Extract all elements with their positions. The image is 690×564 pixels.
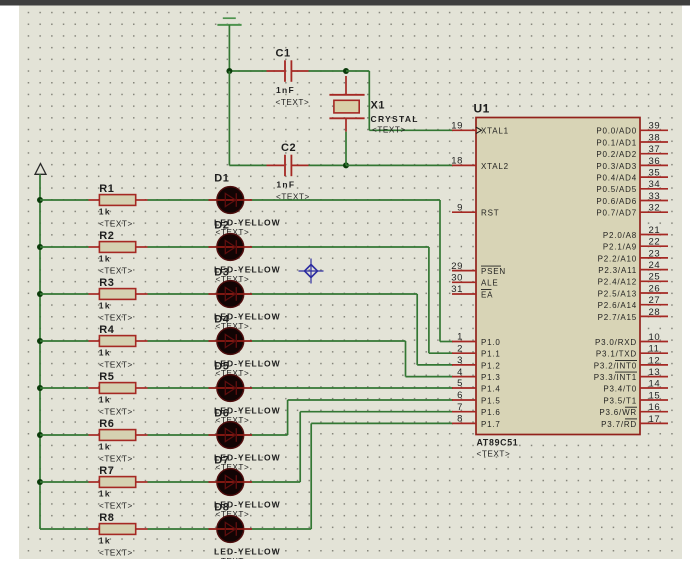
wire D6 to P1.5 xyxy=(252,400,453,435)
node bus junction row 7 xyxy=(37,479,43,485)
wire left vertical to C2 xyxy=(228,71,230,165)
svg-text:P3.5/T1: P3.5/T1 xyxy=(603,396,637,405)
svg-text:P1.1: P1.1 xyxy=(481,350,501,359)
svg-text:C2: C2 xyxy=(281,142,296,154)
LED D6 xyxy=(209,407,281,472)
U1 pin 28 P2.7 xyxy=(598,307,668,322)
svg-text:6: 6 xyxy=(457,390,463,401)
svg-text:34: 34 xyxy=(649,179,661,190)
U1 pin 13 P3.3 xyxy=(594,367,668,382)
node bus junction row 4 xyxy=(37,338,43,344)
wire C2 left xyxy=(229,164,266,166)
svg-text:12: 12 xyxy=(649,355,661,366)
svg-text:39: 39 xyxy=(649,121,661,132)
U1 pin 9 RST xyxy=(452,202,499,217)
svg-text:<TEXT>: <TEXT> xyxy=(99,361,133,370)
node bus junction row 2 xyxy=(37,244,43,250)
op-amp U1 body (AT89C51 MCU) xyxy=(474,102,641,459)
svg-text:1k: 1k xyxy=(99,254,111,264)
resistor R6 xyxy=(89,418,148,464)
LED D2 xyxy=(209,219,281,284)
svg-text:RST: RST xyxy=(481,209,499,218)
wire C2 right xyxy=(309,164,347,166)
U1 pin 23 P2.2 xyxy=(598,248,668,263)
svg-text:R4: R4 xyxy=(99,324,114,336)
svg-text:R6: R6 xyxy=(99,418,114,430)
svg-text:1k: 1k xyxy=(99,489,111,499)
svg-text:D8: D8 xyxy=(214,501,229,513)
svg-text:<TEXT>: <TEXT> xyxy=(276,98,310,107)
svg-text:P1.6: P1.6 xyxy=(481,408,501,417)
svg-text:32: 32 xyxy=(649,203,661,214)
svg-text:<TEXT>: <TEXT> xyxy=(99,408,133,417)
svg-text:P2.3/A11: P2.3/A11 xyxy=(598,266,637,275)
U1 pin 15 P3.5 xyxy=(603,390,668,405)
svg-text:P0.6/AD6: P0.6/AD6 xyxy=(596,197,637,206)
svg-text:1k: 1k xyxy=(99,301,111,311)
svg-text:2: 2 xyxy=(457,343,463,354)
svg-text:R3: R3 xyxy=(99,277,114,289)
U1 pin 27 P2.6 xyxy=(598,295,668,310)
svg-text:P0.7/AD7: P0.7/AD7 xyxy=(596,209,637,218)
svg-text:P2.5/A13: P2.5/A13 xyxy=(598,289,637,298)
wire bus to R6 xyxy=(40,434,89,436)
wire D7 to P1.6 xyxy=(252,412,453,482)
wire R1 to D1 xyxy=(148,199,209,201)
node origin marker xyxy=(299,259,324,284)
svg-text:27: 27 xyxy=(649,295,661,306)
U1 pin 8 P1.7 xyxy=(452,414,501,429)
svg-text:3: 3 xyxy=(457,355,463,366)
svg-text:P3.0/RXD: P3.0/RXD xyxy=(595,338,637,347)
svg-text:P3.6/WR: P3.6/WR xyxy=(599,408,637,417)
svg-text:P2.4/A12: P2.4/A12 xyxy=(598,278,637,287)
U1 pin 5 P1.4 xyxy=(452,378,501,393)
wire R5 to D5 xyxy=(148,387,209,389)
wire bus to R3 xyxy=(40,293,89,295)
capacitor C2 xyxy=(267,142,310,201)
svg-text:<TEXT>: <TEXT> xyxy=(99,455,133,464)
svg-text:P3.7/RD: P3.7/RD xyxy=(601,420,637,429)
svg-text:P1.5: P1.5 xyxy=(481,396,501,405)
wire C2 to XTAL2 xyxy=(346,164,453,166)
wire R3 to D3 xyxy=(148,293,209,295)
svg-text:33: 33 xyxy=(649,191,661,202)
svg-text:CRYSTAL: CRYSTAL xyxy=(371,114,419,124)
ground xyxy=(217,18,241,25)
svg-text:LED-YELLOW: LED-YELLOW xyxy=(214,546,281,556)
svg-text:D3: D3 xyxy=(214,266,229,278)
wire D1 to P1.0 xyxy=(252,200,453,342)
U1 pin 35 P0.4 xyxy=(596,168,668,183)
svg-text:<TEXT>: <TEXT> xyxy=(372,126,406,135)
svg-text:P0.3/AD3: P0.3/AD3 xyxy=(596,162,637,171)
U1 pin 36 P0.3 xyxy=(596,156,668,171)
svg-text:P3.1/TXD: P3.1/TXD xyxy=(596,350,637,359)
U1 pin 12 P3.2 xyxy=(594,355,668,370)
node bus junction row 1 xyxy=(37,197,43,203)
node bus junction row 5 xyxy=(37,385,43,391)
svg-text:8: 8 xyxy=(457,414,463,425)
U1 pin 14 P3.4 xyxy=(603,378,668,393)
U1 pin 33 P0.6 xyxy=(596,191,668,206)
svg-text:1: 1 xyxy=(457,332,463,343)
svg-text:R7: R7 xyxy=(99,465,114,477)
wire D2 to P1.1 xyxy=(252,247,453,353)
svg-text:24: 24 xyxy=(649,260,661,271)
svg-text:P3.3/INT1: P3.3/INT1 xyxy=(594,373,637,382)
svg-text:38: 38 xyxy=(649,132,661,143)
svg-text:P2.7/A15: P2.7/A15 xyxy=(598,313,637,322)
wire bus to R7 xyxy=(40,481,89,483)
svg-text:17: 17 xyxy=(649,414,661,425)
svg-text:1k: 1k xyxy=(99,395,111,405)
svg-text:7: 7 xyxy=(457,402,463,413)
node bus junction row 3 xyxy=(37,291,43,297)
wire bus to R4 xyxy=(40,340,89,342)
svg-text:21: 21 xyxy=(649,225,661,236)
svg-text:P0.5/AD5: P0.5/AD5 xyxy=(596,185,637,194)
resistor R4 xyxy=(89,324,148,370)
svg-text:XTAL2: XTAL2 xyxy=(481,162,509,171)
svg-text:9: 9 xyxy=(457,202,463,213)
LED D4 xyxy=(209,313,281,378)
wire C1 left xyxy=(229,70,266,72)
node C1/crystal junction xyxy=(343,68,349,74)
wire R2 to D2 xyxy=(148,246,209,248)
svg-text:15: 15 xyxy=(649,390,661,401)
U1 pin 32 P0.7 xyxy=(596,203,668,218)
svg-text:P3.2/INT0: P3.2/INT0 xyxy=(594,361,637,370)
svg-text:AT89C51: AT89C51 xyxy=(477,437,519,447)
LED D3 xyxy=(209,266,281,331)
svg-text:P2.6/A14: P2.6/A14 xyxy=(598,301,637,310)
svg-text:R8: R8 xyxy=(99,512,114,524)
U1 pin 26 P2.5 xyxy=(598,283,668,298)
U1 pin 16 P3.6 xyxy=(599,402,668,417)
svg-text:P3.4/T0: P3.4/T0 xyxy=(603,384,637,393)
svg-text:P0.2/AD2: P0.2/AD2 xyxy=(596,150,637,159)
U1 pin 29 PSEN xyxy=(451,261,506,276)
svg-text:11: 11 xyxy=(649,344,660,355)
wire power bus bottom xyxy=(40,528,89,530)
svg-text:1k: 1k xyxy=(99,536,111,546)
svg-text:P2.0/A8: P2.0/A8 xyxy=(603,231,637,240)
svg-text:35: 35 xyxy=(649,168,661,179)
U1 pin 38 P0.1 xyxy=(596,132,668,147)
svg-text:10: 10 xyxy=(649,332,661,343)
svg-text:<TEXT>: <TEXT> xyxy=(477,450,511,459)
svg-text:1nF: 1nF xyxy=(276,179,295,189)
U1 pin 10 P3.0 xyxy=(595,332,668,347)
U1 pin 34 P0.5 xyxy=(596,179,668,194)
wire power bus vertical xyxy=(39,174,41,529)
svg-text:D4: D4 xyxy=(214,313,229,325)
svg-text:EA: EA xyxy=(481,290,493,299)
svg-text:R1: R1 xyxy=(99,183,114,195)
wire R6 to D6 xyxy=(148,434,209,436)
wire D5 to P1.4 xyxy=(252,387,453,389)
wire ground stem xyxy=(228,25,230,71)
svg-text:X1: X1 xyxy=(371,100,385,112)
svg-text:30: 30 xyxy=(451,273,463,284)
wire crystal bottom xyxy=(345,132,347,166)
svg-text:P1.4: P1.4 xyxy=(481,384,501,393)
U1 pin 37 P0.2 xyxy=(596,144,668,159)
svg-text:29: 29 xyxy=(451,261,463,272)
svg-text:1k: 1k xyxy=(99,348,111,358)
svg-text:18: 18 xyxy=(451,156,463,167)
svg-text:U1: U1 xyxy=(474,102,490,116)
svg-text:1k: 1k xyxy=(99,442,111,452)
wire D4 to P1.3 xyxy=(252,341,453,377)
U1 pin 19 XTAL1 xyxy=(451,121,509,136)
resistor R1 xyxy=(89,183,148,229)
U1 pin 22 P2.1 xyxy=(603,237,668,252)
svg-text:31: 31 xyxy=(451,284,463,295)
U1 pin 30 ALE xyxy=(451,273,498,288)
svg-text:P0.4/AD4: P0.4/AD4 xyxy=(596,174,637,183)
node C1/ground junction xyxy=(226,68,232,74)
svg-text:26: 26 xyxy=(649,283,661,294)
svg-text:XTAL1: XTAL1 xyxy=(481,127,509,136)
svg-text:16: 16 xyxy=(649,402,661,413)
svg-text:22: 22 xyxy=(649,237,661,248)
svg-text:1k: 1k xyxy=(99,207,111,217)
U1 pin 25 P2.4 xyxy=(598,272,668,287)
U1 pin 4 P1.3 xyxy=(452,367,501,382)
capacitor C1 xyxy=(267,48,310,108)
power terminal arrow xyxy=(35,164,46,175)
svg-text:25: 25 xyxy=(649,272,661,283)
LED D1 xyxy=(209,172,281,237)
svg-text:37: 37 xyxy=(649,144,661,155)
resistor R8 xyxy=(89,512,148,558)
svg-text:C1: C1 xyxy=(276,48,291,60)
svg-text:P2.1/A9: P2.1/A9 xyxy=(603,243,637,252)
wire D3 to P1.2 xyxy=(252,294,453,365)
svg-text:PSEN: PSEN xyxy=(481,267,506,276)
U1 pin 17 P3.7 xyxy=(601,414,668,429)
wire C1 right xyxy=(309,70,347,72)
resistor R5 xyxy=(89,371,148,417)
wire bus to R1 xyxy=(40,199,89,201)
U1 pin 21 P2.0 xyxy=(603,225,668,240)
svg-text:5: 5 xyxy=(457,378,463,389)
svg-text:P1.2: P1.2 xyxy=(481,361,501,370)
svg-text:<TEXT>: <TEXT> xyxy=(99,314,133,323)
resistor R7 xyxy=(89,465,148,511)
U1 pin 39 P0.0 xyxy=(596,121,668,136)
svg-text:<TEXT>: <TEXT> xyxy=(99,267,133,276)
LED D7 xyxy=(209,454,281,519)
U1 pin 24 P2.3 xyxy=(598,260,668,275)
svg-text:R5: R5 xyxy=(99,371,114,383)
svg-text:D6: D6 xyxy=(214,407,229,419)
node C2/crystal junction xyxy=(343,162,349,168)
svg-text:23: 23 xyxy=(649,248,661,259)
svg-text:13: 13 xyxy=(649,367,661,378)
svg-text:19: 19 xyxy=(451,121,463,132)
U1 pin 18 XTAL2 xyxy=(451,156,509,171)
svg-text:R2: R2 xyxy=(99,230,114,242)
wire D8 to P1.7 xyxy=(252,423,453,529)
svg-text:ALE: ALE xyxy=(481,279,499,288)
svg-text:14: 14 xyxy=(649,378,661,389)
svg-text:1nF: 1nF xyxy=(276,85,295,95)
svg-text:36: 36 xyxy=(649,156,661,167)
svg-text:P0.0/AD0: P0.0/AD0 xyxy=(596,127,637,136)
LED D8 xyxy=(209,501,281,564)
svg-text:28: 28 xyxy=(649,307,661,318)
wire R7 to D7 xyxy=(148,481,209,483)
wire R8 to D8 xyxy=(148,528,209,530)
svg-text:<TEXT>: <TEXT> xyxy=(99,549,133,558)
svg-text:D2: D2 xyxy=(214,219,229,231)
U1 pin 6 P1.5 xyxy=(452,390,501,405)
svg-text:D5: D5 xyxy=(214,360,229,372)
svg-text:P1.3: P1.3 xyxy=(481,373,501,382)
U1 pin 11 P3.1 xyxy=(596,344,668,359)
resistor R3 xyxy=(89,277,148,323)
svg-text:P1.7: P1.7 xyxy=(481,420,501,429)
svg-text:4: 4 xyxy=(457,367,463,378)
U1 pin 2 P1.1 xyxy=(452,343,501,358)
wire C1 to XTAL1 xyxy=(346,71,453,130)
wire bus to R2 xyxy=(40,246,89,248)
resistor R2 xyxy=(89,230,148,276)
LED D5 xyxy=(209,360,281,425)
wire R4 to D4 xyxy=(148,340,209,342)
svg-text:P1.0: P1.0 xyxy=(481,338,501,347)
svg-text:<TEXT>: <TEXT> xyxy=(99,220,133,229)
U1 pin 31 EA xyxy=(451,284,493,299)
svg-text:D7: D7 xyxy=(214,454,229,466)
svg-text:P0.1/AD1: P0.1/AD1 xyxy=(596,138,637,147)
U1 pin 1 P1.0 xyxy=(452,332,501,347)
wire bus to R5 xyxy=(40,387,89,389)
svg-text:P2.2/A10: P2.2/A10 xyxy=(598,254,637,263)
svg-text:D1: D1 xyxy=(214,172,229,184)
U1 pin 7 P1.6 xyxy=(452,402,501,417)
crystal X1 xyxy=(329,76,418,135)
svg-text:<TEXT>: <TEXT> xyxy=(99,502,133,511)
U1 pin 3 P1.2 xyxy=(452,355,501,370)
node bus junction row 6 xyxy=(37,432,43,438)
